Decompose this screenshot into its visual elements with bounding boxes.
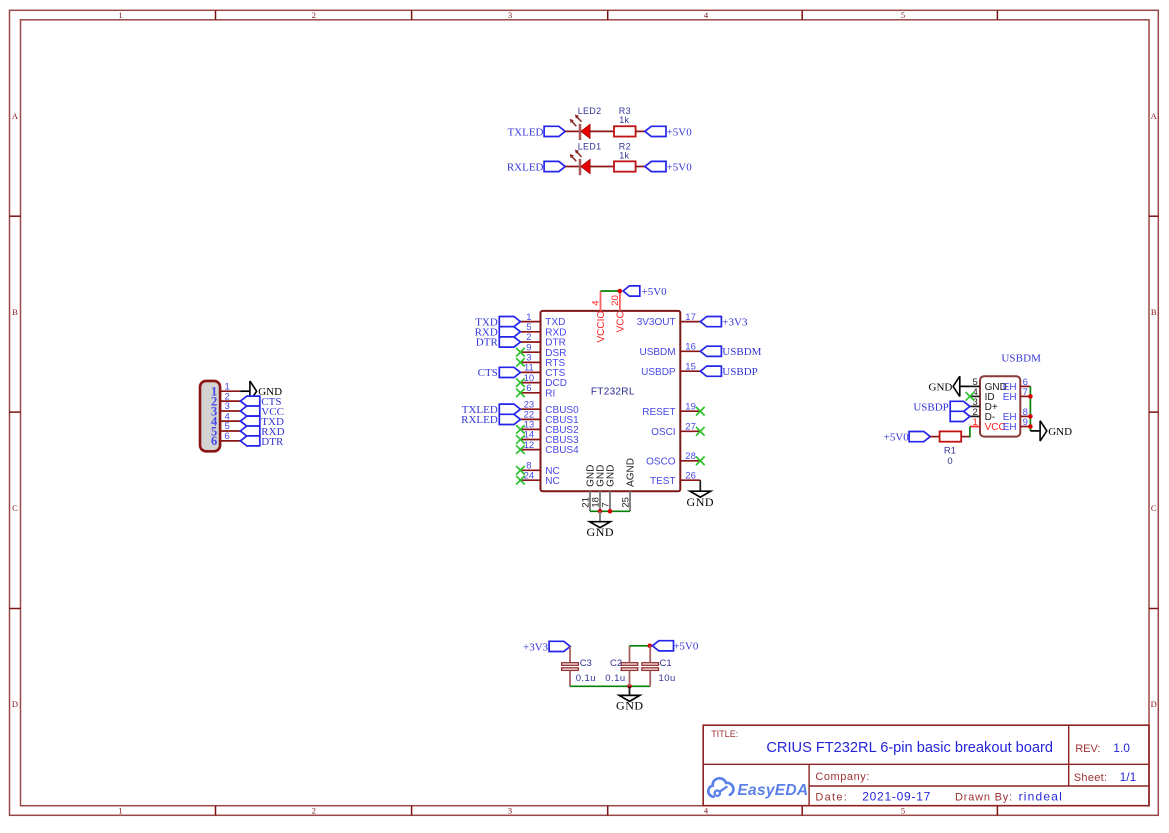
power flag +3V3 at C3 — [523, 641, 570, 653]
svg-text:A: A — [1151, 111, 1158, 121]
U1 pin 28 OSCO — [646, 451, 700, 467]
wire R2 to +5V0 — [636, 166, 645, 168]
svg-text:0.1u: 0.1u — [576, 673, 596, 684]
svg-text:C: C — [12, 503, 18, 513]
svg-text:GND: GND — [587, 525, 615, 539]
ground flag GND on U2 pin 5 — [929, 376, 970, 396]
U1 pin 9 DSR — [520, 342, 566, 358]
power flag +5V0 — [645, 126, 692, 138]
label C3 0.1u — [576, 658, 596, 684]
U1 pin 16 USBDM — [639, 342, 700, 358]
svg-text:A: A — [12, 111, 19, 121]
net flag USBDP on U2 pin 3 — [950, 401, 970, 411]
svg-text:28: 28 — [685, 451, 696, 462]
svg-text:1k: 1k — [619, 150, 629, 160]
svg-text:C1: C1 — [660, 658, 672, 669]
wire elbow to U2 pin 1 — [969, 427, 971, 438]
wire +3V3 to C3 — [569, 646, 571, 663]
junction at VCC pin 20 — [618, 289, 623, 294]
svg-text:+5V0: +5V0 — [642, 286, 668, 298]
junction gnd bus — [627, 684, 632, 689]
power flag +5V0 above U1 — [623, 286, 667, 298]
U1 pin 23 CBUS0 — [520, 399, 579, 415]
svg-text:Drawn By:: Drawn By: — [955, 792, 1013, 804]
svg-text:D: D — [12, 699, 18, 709]
svg-text:26: 26 — [685, 470, 696, 481]
junction U2 pin 7 — [1028, 394, 1033, 399]
svg-text:RXLED: RXLED — [461, 414, 498, 426]
wire C3 to gnd bus — [569, 671, 571, 687]
net flag TXLED — [462, 404, 521, 416]
U1 pin 8 NC — [520, 461, 559, 477]
connector U2 USB body — [980, 376, 1020, 436]
U2 pin 3 D+ — [970, 397, 998, 413]
U1 pin 12 CBUS4 — [520, 440, 579, 456]
U1 pin 26 TEST — [650, 470, 700, 486]
svg-text:5: 5 — [901, 10, 905, 20]
wire C1 bottom — [649, 671, 651, 687]
svg-text:1.0: 1.0 — [1113, 741, 1130, 755]
P1 pin 6 stub — [220, 440, 240, 442]
ground flag GND on P1 pin 1 — [240, 381, 282, 401]
svg-text:2: 2 — [312, 805, 316, 815]
no-connect X on U1 pin 12 — [516, 445, 525, 454]
svg-text:+5V0: +5V0 — [673, 641, 699, 653]
svg-text:19: 19 — [685, 401, 696, 412]
svg-text:FT232RL: FT232RL — [591, 386, 635, 397]
net flag DTR — [476, 337, 521, 349]
svg-text:1: 1 — [118, 10, 122, 20]
svg-text:10u: 10u — [659, 673, 676, 684]
resistor R2 — [614, 161, 636, 171]
svg-text:2: 2 — [312, 10, 316, 20]
capacitor C2 — [621, 663, 638, 671]
wire R1 to U2 VCC — [961, 436, 970, 438]
U1 pin 1 TXD — [520, 312, 565, 328]
svg-text:6: 6 — [225, 431, 230, 442]
junction U2 pin 8 — [1028, 414, 1033, 419]
no-connect X on U1 pin 14 — [516, 435, 525, 444]
svg-text:3: 3 — [508, 805, 512, 815]
label C2 0.1u — [605, 658, 625, 684]
net flag RXD on P1 pin 5 — [240, 426, 284, 438]
wire +5V0 to R1 — [930, 436, 939, 438]
wire shield bus right of U2 — [1029, 386, 1031, 431]
wire VCCIO to VCC node — [601, 290, 620, 292]
no-connect X on U1 pin 27 — [696, 427, 705, 436]
ground flag GND right of U2 — [1040, 421, 1072, 441]
svg-text:C2: C2 — [610, 658, 622, 669]
U1 pin 5 RXD — [520, 322, 566, 338]
svg-text:15: 15 — [685, 361, 696, 372]
no-connect X on U1 pin 24 — [516, 476, 525, 485]
svg-text:3V3OUT: 3V3OUT — [637, 317, 676, 328]
U1 pin 18 GND — [591, 465, 607, 512]
svg-text:LED2: LED2 — [578, 106, 602, 116]
svg-text:27: 27 — [685, 422, 696, 433]
svg-text:25: 25 — [621, 497, 632, 508]
label R3 1k — [619, 106, 631, 125]
svg-text:USBDM: USBDM — [1001, 352, 1041, 364]
net flag TXD on P1 pin 4 — [240, 416, 284, 428]
junction U1 pin 7 — [608, 509, 613, 514]
svg-text:GND: GND — [687, 495, 715, 509]
svg-text:GND: GND — [1048, 426, 1072, 438]
wire down to GND — [629, 686, 631, 695]
svg-text:C3: C3 — [580, 658, 592, 669]
no-connect X on U1 pin 28 — [696, 457, 705, 466]
net flag VCC on P1 pin 3 — [240, 406, 284, 418]
junction U2 pin 9 — [1028, 424, 1033, 429]
junction U1 pin 18 — [598, 509, 603, 514]
svg-text:USBDP: USBDP — [722, 366, 757, 378]
svg-text:B: B — [1151, 307, 1157, 317]
U1 pin 7 GND — [601, 465, 617, 512]
U1 pin 15 USBDP — [641, 361, 700, 377]
svg-text:+5V0: +5V0 — [667, 126, 693, 138]
svg-text:3: 3 — [508, 10, 512, 20]
label C1 10u — [659, 658, 676, 684]
svg-text:4: 4 — [591, 300, 602, 305]
svg-text:24: 24 — [524, 470, 535, 481]
no-connect X on U1 pin 13 — [516, 425, 525, 434]
wire LED1 to R2 — [590, 166, 614, 168]
svg-text:12: 12 — [524, 440, 535, 451]
svg-text:6: 6 — [526, 383, 531, 394]
svg-text:rindeal: rindeal — [1019, 790, 1063, 804]
no-connect X on U1 pin 6 — [516, 389, 525, 398]
P1 pin 2 stub — [220, 400, 240, 402]
svg-text:VCCIO: VCCIO — [596, 311, 607, 343]
svg-text:DTR: DTR — [476, 337, 499, 349]
U1 pin 21 GND — [581, 465, 597, 512]
svg-text:RXLED: RXLED — [507, 162, 544, 174]
svg-text:Sheet:: Sheet: — [1074, 772, 1108, 784]
svg-text:GND: GND — [929, 381, 953, 393]
power flag +3V3 — [700, 317, 748, 329]
junction +5V0 node — [648, 644, 653, 649]
power flag +5V0 at R1 — [884, 432, 931, 444]
U1 pin 3 RTS — [520, 353, 565, 369]
svg-text:9: 9 — [1023, 417, 1028, 428]
svg-text:REV:: REV: — [1075, 743, 1100, 755]
U2 pin 2 D- — [970, 407, 995, 423]
svg-text:B: B — [12, 307, 18, 317]
svg-text:7: 7 — [1023, 387, 1028, 398]
svg-text:5: 5 — [901, 805, 905, 815]
svg-text:17: 17 — [685, 312, 696, 323]
ground symbol GND at U1 TEST — [687, 491, 715, 509]
net flag TXLED — [507, 126, 565, 138]
U1 pin 6 RI — [520, 383, 555, 399]
svg-text:1k: 1k — [619, 115, 629, 125]
svg-text:VCC: VCC — [616, 311, 627, 332]
capacitor C3 — [562, 663, 579, 671]
svg-text:Company:: Company: — [815, 771, 870, 783]
svg-text:0.1u: 0.1u — [605, 673, 625, 684]
svg-text:EH: EH — [1003, 422, 1017, 433]
label R2 1k — [619, 141, 631, 160]
wire C2 to +5V0 node — [630, 645, 651, 647]
svg-text:20: 20 — [610, 295, 621, 306]
svg-text:RI: RI — [545, 388, 555, 399]
wire to GND flag — [1030, 430, 1040, 432]
net flag CTS — [478, 367, 521, 379]
svg-text:16: 16 — [685, 342, 696, 353]
U1 pin 17 3V3OUT — [637, 312, 701, 328]
U1 pin 27 OSCI — [651, 422, 700, 438]
resistor R1 — [940, 431, 962, 441]
svg-text:0: 0 — [947, 456, 952, 467]
U1 pin 25 AGND — [621, 458, 637, 511]
no-connect X on U1 pin 19 — [696, 407, 705, 416]
svg-text:C: C — [1151, 503, 1157, 513]
U2 pin 6 EH — [1003, 377, 1031, 393]
wire C2 top — [629, 646, 631, 663]
P1 pin 4 stub — [220, 420, 240, 422]
svg-text:USBDM: USBDM — [639, 347, 675, 358]
U1 pin 14 CBUS3 — [520, 430, 579, 446]
U1 pin 4 VCCIO — [591, 291, 608, 343]
svg-text:GND: GND — [606, 465, 617, 487]
power flag +5V0 — [645, 161, 692, 173]
svg-text:D: D — [1151, 699, 1157, 709]
U1 pin 13 CBUS2 — [520, 420, 579, 436]
svg-text:1: 1 — [118, 805, 122, 815]
resistor R3 — [614, 126, 636, 136]
capacitor C1 — [642, 663, 659, 671]
LED LED1 — [570, 150, 590, 176]
P1 pin 3 stub — [220, 410, 240, 412]
connector P1 body — [200, 381, 220, 451]
svg-text:7: 7 — [601, 502, 612, 507]
svg-text:TITLE:: TITLE: — [711, 729, 738, 739]
IC U1 FT232RL body — [541, 311, 681, 491]
U2 pin 9 EH — [1003, 417, 1031, 433]
wire RXLED to LED1 — [565, 166, 579, 168]
svg-text:CRIUS FT232RL 6-pin basic brea: CRIUS FT232RL 6-pin basic breakout board — [766, 740, 1053, 756]
U1 pin 2 DTR — [520, 332, 565, 348]
svg-text:EH: EH — [1003, 392, 1017, 403]
svg-text:CTS: CTS — [478, 367, 498, 379]
wire R3 to +5V0 — [636, 130, 645, 132]
U2 pin 1 VCC — [970, 417, 1006, 433]
svg-text:+5V0: +5V0 — [667, 161, 693, 173]
svg-text:+5V0: +5V0 — [884, 432, 910, 444]
svg-text:GND: GND — [616, 699, 644, 713]
svg-text:DTR: DTR — [261, 436, 284, 448]
wire GND bus under U1 — [590, 510, 630, 512]
wire down to GND symbol — [599, 511, 601, 521]
wire TXLED to LED2 — [565, 130, 579, 132]
svg-text:1/1: 1/1 — [1120, 770, 1137, 784]
no-connect X on U1 pin 9 — [516, 348, 525, 357]
power flag +5V0 at C1 — [652, 641, 698, 653]
svg-text:USBDP: USBDP — [913, 401, 948, 413]
svg-text:6: 6 — [211, 434, 217, 448]
U1 pin 10 DCD — [520, 373, 567, 389]
svg-text:NC: NC — [545, 476, 559, 487]
net flag (USBDP) on U2 pin 2 — [950, 411, 970, 421]
no-connect X on U1 pin 3 — [516, 358, 525, 367]
net flag USBDP — [700, 366, 757, 378]
svg-text:USBDM: USBDM — [722, 346, 761, 358]
ground symbol GND under U1 — [587, 522, 615, 540]
svg-text:OSCI: OSCI — [651, 427, 675, 438]
net flag TXD — [475, 316, 520, 328]
net flag RXD — [475, 327, 521, 339]
wire gnd bus — [570, 685, 650, 687]
net flag DTR on P1 pin 6 — [240, 436, 284, 448]
svg-text:+3V3: +3V3 — [722, 317, 748, 329]
U2 pin 7 EH — [1003, 387, 1031, 403]
U1 pin 22 CBUS1 — [520, 410, 579, 426]
U2 pin 8 EH — [1003, 407, 1031, 423]
svg-text:2021-09-17: 2021-09-17 — [862, 790, 931, 804]
U2 pin 5 GND — [970, 377, 1007, 393]
wire C2 bottom — [629, 671, 631, 687]
label R1 0 — [944, 446, 956, 467]
svg-text:EasyEDA: EasyEDA — [737, 782, 808, 799]
U1 pin 19 RESET — [642, 401, 700, 417]
svg-text:Date:: Date: — [815, 792, 848, 804]
net flag RXLED — [507, 161, 565, 173]
title block frame — [703, 725, 1149, 806]
U1 pin 20 VCC — [610, 291, 627, 332]
net flag RXLED — [461, 414, 520, 426]
no-connect X on U2 pin 4 ID — [966, 392, 975, 401]
U1 pin 24 NC — [520, 470, 559, 486]
svg-text:USBDP: USBDP — [641, 367, 676, 378]
net flag CTS on P1 pin 2 — [240, 396, 281, 408]
U2 pin 4 ID — [970, 387, 995, 403]
P1 pin 1 stub — [220, 390, 240, 392]
svg-text:TXLED: TXLED — [507, 126, 543, 138]
svg-text:TEST: TEST — [650, 476, 676, 487]
no-connect X on U1 pin 8 — [516, 466, 525, 475]
no-connect X on U1 pin 10 — [516, 378, 525, 387]
svg-text:LED1: LED1 — [578, 141, 602, 151]
svg-text:CBUS4: CBUS4 — [545, 445, 579, 456]
wire LED2 to R3 — [590, 130, 614, 132]
svg-text:OSCO: OSCO — [646, 456, 676, 467]
EasyEDA logo — [708, 778, 808, 799]
wire C1 top — [649, 646, 651, 663]
svg-text:RESET: RESET — [642, 407, 675, 418]
svg-text:1: 1 — [973, 417, 978, 428]
svg-text:+3V3: +3V3 — [523, 641, 549, 653]
P1 pin 5 stub — [220, 430, 240, 432]
ground symbol GND under capacitors — [616, 695, 644, 712]
U1 pin 11 CTS — [520, 363, 565, 379]
svg-text:AGND: AGND — [626, 458, 637, 487]
LED LED2 — [570, 115, 590, 141]
wire U1 TEST to ground — [699, 480, 701, 491]
net flag USBDM — [700, 346, 761, 358]
